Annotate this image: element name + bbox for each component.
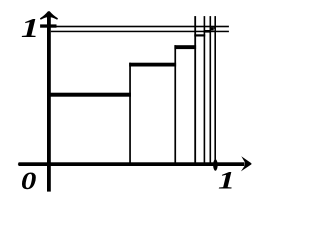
x-axis arrowhead	[241, 156, 252, 171]
guide line y=1	[57, 26, 229, 28]
point x=1 dot	[213, 159, 218, 170]
x-axis shaft	[19, 162, 245, 166]
jump line x=1	[214, 16, 216, 164]
step 1	[49, 93, 132, 97]
guide line 2	[51, 31, 229, 33]
step 3	[174, 45, 196, 49]
step 6 nub	[214, 27, 215, 29]
jump line x=15/16	[204, 16, 206, 164]
jump line x=31/32	[210, 16, 212, 164]
jump line x=1/2	[129, 63, 131, 165]
svg-text:1: 1	[218, 167, 235, 195]
jump line x=3/4	[174, 45, 176, 164]
y-axis arrowhead	[40, 11, 58, 19]
x-axis left tip	[18, 162, 19, 166]
svg-text:1: 1	[21, 13, 40, 43]
tick y=1	[40, 24, 56, 27]
step 5	[204, 30, 211, 33]
step 6	[210, 27, 214, 30]
svg-text:0: 0	[21, 168, 36, 196]
step 4	[194, 34, 205, 36]
y-axis shaft	[47, 14, 51, 192]
jump line x=7/8	[194, 16, 196, 164]
step 2	[129, 63, 176, 67]
